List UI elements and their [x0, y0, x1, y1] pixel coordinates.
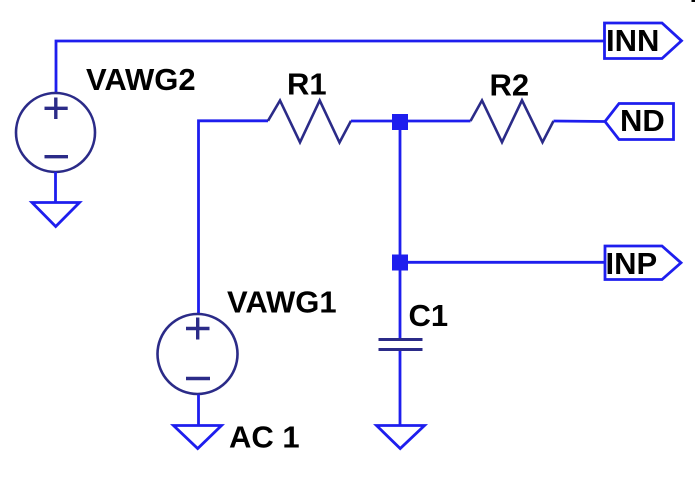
flag INP: [605, 246, 681, 281]
flag ND: [605, 103, 674, 140]
wire: VAWG2 top to INN net: [56, 41, 604, 93]
svg-text:C1: C1: [409, 298, 449, 333]
wire: C1 bottom to ground: [399, 351, 402, 426]
svg-text:R1: R1: [287, 67, 327, 102]
svg-text:VAWG2: VAWG2: [86, 62, 196, 97]
resistor R1: [268, 100, 351, 142]
wire: R2 to ND flag: [554, 120, 606, 123]
wire: VAWG1 bottom to ground: [197, 395, 200, 426]
wire: J1 to R2: [400, 120, 471, 123]
wire: J2 to INP flag: [400, 261, 605, 264]
ground under VAWG2: [32, 203, 80, 227]
wire: VAWG2 bottom to ground: [54, 172, 57, 203]
resistor R2: [471, 100, 554, 142]
svg-text:AC 1: AC 1: [229, 420, 300, 455]
cropped text fragment at top-right corner: [692, 0, 695, 2]
svg-text:INN: INN: [606, 23, 659, 58]
voltage source VAWG1: [158, 314, 238, 394]
junction J1: [392, 114, 408, 130]
svg-text:ND: ND: [620, 103, 665, 138]
svg-text:INP: INP: [606, 246, 658, 281]
wire: VAWG1 top up and right to R1: [199, 121, 269, 314]
ground under VAWG1: [174, 426, 222, 449]
svg-text:VAWG1: VAWG1: [227, 285, 337, 320]
svg-text:R2: R2: [490, 68, 530, 103]
junction J2: [392, 255, 408, 271]
ground under C1: [377, 426, 425, 449]
capacitor C1: [379, 340, 423, 350]
wire: J1 down to J2: [399, 121, 402, 263]
wire: R1 to junction J1: [351, 120, 400, 123]
flag INN: [605, 23, 682, 59]
wire: J2 down to C1: [399, 263, 402, 339]
voltage source VAWG2: [16, 93, 95, 172]
